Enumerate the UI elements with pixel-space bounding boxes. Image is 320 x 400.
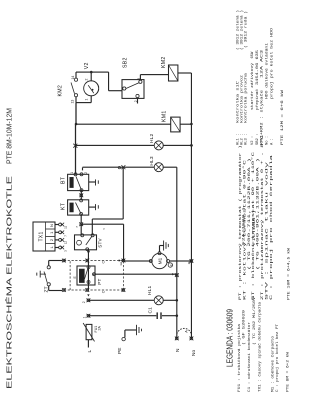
svg-text:KT: KT [61, 202, 67, 210]
svg-text:kontrolka porucha: kontrolka porucha [244, 72, 249, 123]
svg-text:KM1+KM2 : stykače: KM1+KM2 : stykače [260, 89, 265, 145]
svg-text:HDO dálkové ovládání: HDO dálkové ovládání [265, 42, 270, 99]
svg-text:2A: 2A [98, 326, 102, 331]
svg-text:BT : blokační termostat 90 +: BT : blokační termostat 90 + 110°C [251, 151, 256, 300]
svg-text:KM1: KM1 [162, 110, 168, 122]
svg-text:BT: BT [61, 176, 67, 184]
svg-text:1: 1 [49, 231, 54, 234]
svg-text:KM2: KM2 [58, 85, 64, 97]
svg-text:TX1: TX1 [39, 231, 45, 241]
svg-text:E: E [73, 276, 77, 279]
svg-text:No: No [191, 350, 197, 356]
svg-text:PTE 10M = 6+4,5 kW: PTE 10M = 6+4,5 kW [286, 247, 291, 300]
svg-text:KM2: KM2 [161, 56, 167, 68]
svg-text:HL3: HL3 [149, 156, 155, 166]
svg-text:C: C [101, 290, 105, 293]
svg-text:12: 12 [63, 241, 67, 245]
svg-text:c: c [102, 228, 106, 230]
svg-text:PTE 12M = 6+6 kW: PTE 12M = 6+6 kW [280, 89, 285, 145]
svg-text:7: 7 [75, 226, 79, 228]
svg-text:A :: A : [271, 138, 275, 145]
svg-text:M1 : oběhové čerpadlo: M1 : oběhové čerpadlo [271, 335, 276, 392]
svg-text:N: N [175, 348, 181, 352]
svg-text:M1: M1 [157, 257, 162, 264]
svg-text:12: 12 [119, 262, 123, 266]
svg-text:ZT : protizámrazový termostat: ZT : protizámrazový termostat 0 + - 8°C [260, 134, 265, 300]
svg-text:2: 2 [82, 301, 86, 303]
svg-text:1: 1 [82, 316, 86, 318]
svg-text:C1: C1 [148, 307, 154, 314]
svg-text:14: 14 [71, 76, 75, 80]
svg-text:KT : kotlový termostat 0-90°: KT : kotlový termostat 0-90°C [242, 158, 247, 300]
svg-text:PE: PE [117, 348, 123, 354]
svg-text:2: 2 [84, 172, 88, 174]
svg-text:L: L [87, 350, 93, 353]
svg-text:SB2 :: SB2 : [256, 134, 260, 145]
svg-text:2: 2 [85, 79, 89, 81]
svg-text:STV : spínač tlaku vody: STV : spínač tlaku vody [264, 160, 269, 300]
svg-text:HL1: HL1 [147, 285, 153, 295]
svg-text:HL2: HL2 [149, 133, 155, 143]
svg-text:1: 1 [85, 99, 89, 101]
svg-text:3: 3 [63, 250, 67, 252]
svg-text:12A AC3: 12A AC3 [261, 49, 265, 78]
svg-text:2: 2 [49, 238, 54, 241]
svg-text:SB2: SB2 [123, 57, 129, 68]
svg-text:No :: No : [266, 136, 270, 145]
svg-text:PTE 8M-10M-12M: PTE 8M-10M-12M [7, 108, 14, 164]
svg-text:A: A [185, 330, 189, 333]
svg-text:( TG 400-961,1132B.00A ): ( TG 400-961,1132B.00A ) [256, 158, 261, 270]
svg-text:11: 11 [63, 225, 67, 228]
svg-text:C1 : odrušovací kondenzátor: C1 : odrušovací kondenzátor [247, 322, 252, 392]
svg-text:( 3912 rudá ): ( 3912 rudá ) [244, 11, 249, 48]
svg-text:N: N [49, 224, 54, 227]
svg-text:PT : prostorový termostat ( p: PT : prostorový termostat ( programátor … [238, 145, 243, 300]
svg-text:FU1 : trubičková pojistka: FU1 : trubičková pojistka [237, 323, 242, 392]
svg-text:( TG 200-711,1122B.00A ): ( TG 200-711,1122B.00A ) [247, 158, 252, 270]
svg-text:TX1 : časový spínač doběhu čer: TX1 : časový spínač doběhu čerpadla [258, 301, 263, 392]
svg-text:C : propoj pro kotel bez PT: C : propoj pro kotel bez PT [275, 323, 280, 392]
svg-text:7: 7 [63, 235, 67, 237]
svg-text:HL3 :: HL3 : [245, 134, 249, 145]
svg-text:PT: PT [97, 279, 102, 285]
svg-text:1: 1 [70, 172, 74, 174]
svg-text:propoj pro kotel bez HDO: propoj pro kotel bez HDO [270, 27, 275, 99]
svg-text:C : propoj pro chod čerpadla: C : propoj pro chod čerpadla [269, 153, 274, 300]
svg-text:L: L [49, 245, 54, 248]
svg-text:V2 :: V2 : [251, 136, 255, 145]
svg-text:C: C [101, 261, 105, 264]
svg-text:3454-06 635: 3454-06 635 [256, 49, 260, 85]
svg-text:ELEKTROSCHÉMA ELEKTROKOTLE: ELEKTROSCHÉMA ELEKTROKOTLE [5, 176, 14, 389]
svg-text:65W: 65W [251, 51, 255, 59]
svg-text:( GF 520020: ( GF 520020 [242, 309, 247, 345]
svg-text:přepínač: přepínač [255, 89, 260, 110]
svg-text:( TC 202 M1/250V: ( TC 202 M1/250V [252, 296, 257, 345]
svg-text:13: 13 [70, 100, 74, 104]
svg-text:V2: V2 [84, 62, 90, 69]
svg-text:STV: STV [97, 238, 102, 248]
svg-text:LEGENDA : 030609: LEGENDA : 030609 [226, 309, 235, 367]
svg-text:startér zářivkový: startér zářivkový [250, 62, 255, 110]
svg-text:PTE 8M = 6+2 kW: PTE 8M = 6+2 kW [286, 351, 291, 392]
